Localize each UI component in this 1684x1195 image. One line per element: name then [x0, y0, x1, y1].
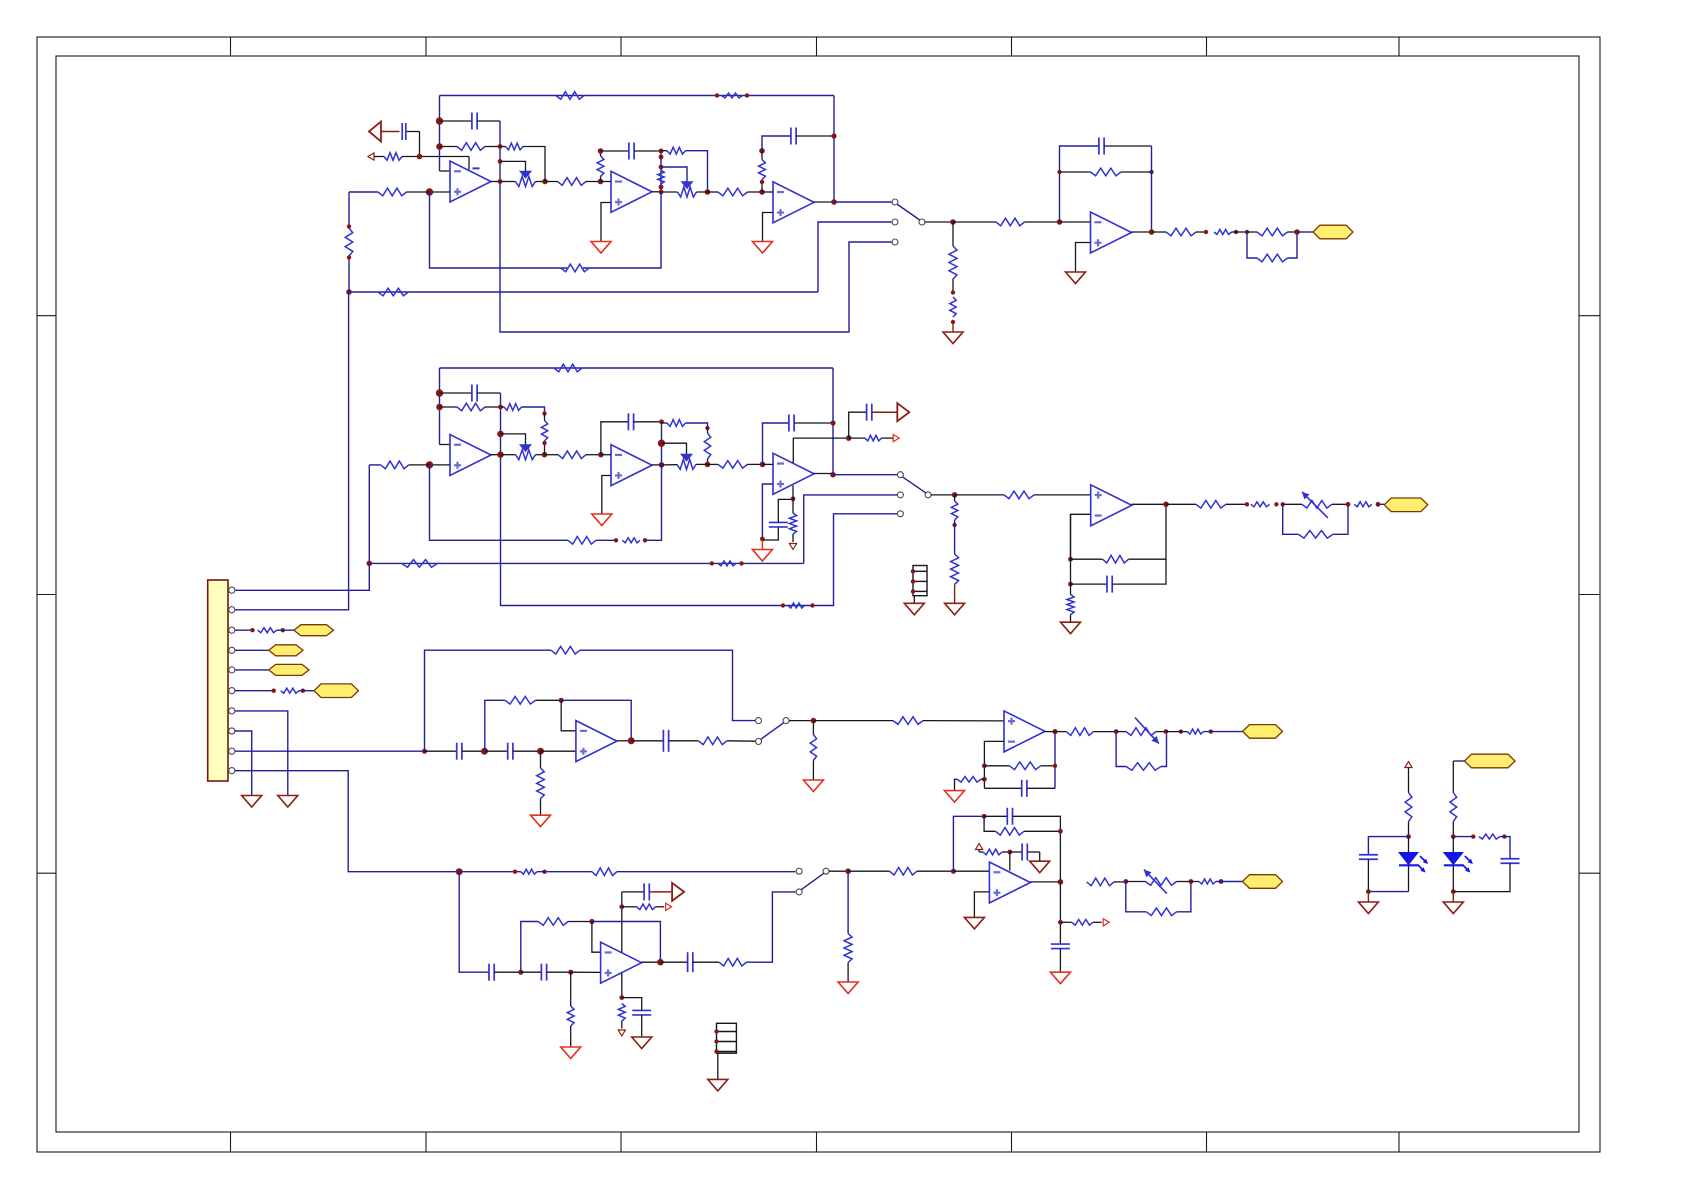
junction col500B a — [498, 405, 503, 410]
resistor R67 vertical — [618, 1004, 625, 1029]
wire U9 minus stub — [561, 700, 576, 731]
junction swB out — [952, 492, 958, 498]
junction outA c — [1245, 230, 1249, 234]
wire switch B mid input — [804, 495, 897, 564]
op-amp U8 — [1091, 485, 1132, 526]
junction U7 bot pin — [791, 496, 796, 501]
ground GND22 (LED1) — [1358, 892, 1378, 914]
junction U11 minus node — [589, 919, 594, 924]
wire U11 top pin — [621, 892, 623, 953]
resistor R42 to U8 — [955, 491, 1091, 499]
supply arrow small up LED — [1405, 762, 1412, 768]
junction fb left — [1057, 170, 1061, 174]
wire U8 out — [1132, 503, 1166, 505]
junction rowD mid — [518, 970, 523, 975]
junction U7 plus low — [760, 537, 765, 542]
op-amp U7 — [773, 453, 814, 494]
resistor R77 LED1 — [1405, 768, 1412, 837]
junction col661B a — [659, 419, 664, 424]
resistor R66 portD — [622, 904, 664, 910]
small resistor R79 LED2 — [1479, 834, 1500, 839]
wire U9 out — [617, 740, 631, 742]
ground GND18 (U12 bias) — [1030, 861, 1050, 873]
junction outC b — [1164, 729, 1169, 734]
wire top feedback A — [440, 96, 835, 203]
junction col661 d — [659, 185, 664, 190]
junction U9 minus node — [559, 698, 564, 703]
junction summing B top — [436, 389, 443, 396]
wire outA — [1232, 231, 1248, 233]
junction U12 in — [951, 869, 956, 874]
junction U12 outc — [1058, 920, 1063, 925]
wire U1 plus stub — [430, 191, 451, 193]
op-amp U1 — [450, 161, 491, 202]
capacitor C15 feedback U10 — [984, 780, 1055, 797]
trimmer TR1 — [1283, 492, 1348, 518]
wire pin2 riser — [235, 292, 349, 610]
resistor R51 rowC bias — [537, 751, 545, 815]
resistor R25 feedback U5 — [440, 403, 501, 411]
junction col661 e — [659, 190, 664, 195]
wire U7 out — [814, 473, 834, 475]
wire U10 minus stub — [984, 741, 1004, 788]
small resistor R37 y563 — [718, 561, 736, 566]
junction outB a — [1245, 502, 1249, 506]
junction LED1 top — [1406, 834, 1411, 839]
small resistor R76 outD — [1191, 879, 1216, 884]
op-amp U12 — [989, 862, 1030, 903]
wire U12 out — [1030, 881, 1060, 883]
junction U8 out — [1163, 502, 1169, 508]
port arrow small down — [789, 544, 796, 550]
wire U11 fb to out — [592, 922, 661, 963]
junction LED1 bot — [1366, 889, 1371, 894]
junction pot3 right — [542, 452, 548, 458]
wire to label A — [1297, 231, 1313, 233]
wire U7 bottom pin — [792, 486, 794, 499]
wire U1 output — [491, 181, 500, 183]
resistor R5 — [500, 143, 545, 181]
resistor R58 U10 gnd — [955, 777, 985, 791]
wire U5 plus stub — [430, 464, 451, 466]
wire column U5 out — [501, 393, 898, 606]
resistor R18 to U4 — [953, 218, 1060, 226]
junction portD node — [619, 904, 624, 909]
resistor R69 swD shunt — [844, 871, 852, 982]
small resistor R50 pin6 — [281, 688, 299, 693]
wire LED2 right down — [1500, 837, 1510, 859]
wire U6 out — [652, 464, 662, 466]
junction C8 right — [830, 420, 835, 425]
small resistor R61 outC — [1166, 729, 1204, 734]
ground GND11 (rowC bias) — [531, 815, 551, 827]
net label LED supply — [1465, 754, 1516, 768]
junction divider mid — [951, 290, 955, 294]
resistor R16 divider — [949, 222, 957, 293]
trimmer TR3 — [1126, 870, 1191, 894]
resistor R19 feedback U4 — [1060, 168, 1152, 176]
ground GND6 (U7 plus) — [752, 539, 772, 561]
wire rowD cap chain — [459, 872, 489, 973]
resistor R26 U5 plus input — [369, 461, 429, 469]
junction col762 top — [759, 148, 765, 154]
junction summing top — [436, 117, 443, 124]
wire U12 fb left — [953, 816, 984, 871]
junction outD c — [1219, 879, 1224, 884]
resistor R60 parallel outC — [1116, 732, 1166, 771]
junction x349 a — [347, 224, 351, 228]
resistor R73 to port — [1060, 920, 1101, 926]
junction outC d — [1209, 729, 1213, 733]
net label PIN5 — [269, 664, 309, 675]
capacitor C17 rowD — [521, 964, 571, 981]
junction U8 fb b — [1068, 582, 1073, 587]
resistor R31 over pot4 — [662, 420, 708, 428]
op-amp U10 — [1004, 711, 1045, 752]
resistor R24 top feedback B — [554, 364, 582, 372]
connector J1 pins — [228, 587, 235, 774]
capacitor C8 feedback U7 — [763, 415, 834, 465]
resistor R38 y540 — [568, 537, 596, 545]
wire U7 top pin — [793, 438, 848, 463]
junction divider low — [951, 320, 955, 324]
op-amp U3 — [773, 182, 814, 223]
junction swC out — [811, 718, 817, 724]
resistor R36 y563 — [402, 560, 438, 568]
capacitor C21 feedback U12 — [984, 808, 1060, 882]
resistor R72 bias U12 — [979, 849, 1010, 855]
junction y563 b — [739, 561, 743, 565]
junction U10 out — [1052, 729, 1057, 734]
resistor R30 — [545, 451, 601, 459]
resistor R63 rowD — [537, 868, 795, 876]
wire summing column — [440, 96, 451, 172]
wire switch A mid input — [818, 222, 892, 292]
capacitor C20 rowD out — [660, 952, 719, 972]
junction U3 out — [831, 199, 837, 205]
wire U8 minus stub — [1071, 514, 1091, 559]
capacitor C11 feedback U8 — [1071, 559, 1167, 592]
port arrow small down D — [618, 1030, 625, 1036]
ground GND2 (U3 plus) — [753, 242, 773, 254]
resistor R13 U1 plus — [349, 188, 430, 196]
wire column U6 out — [661, 422, 663, 465]
wire column U2 out — [660, 151, 662, 192]
port P1 (input, left arrow) — [369, 122, 400, 142]
ground GND15 (C19) — [632, 1037, 652, 1049]
wire switch D common — [829, 870, 848, 872]
wire U4 plus stub — [1076, 243, 1091, 273]
junction y563 a — [710, 561, 714, 565]
junction LED2 top — [1451, 834, 1456, 839]
port arrow small right D — [666, 903, 672, 910]
junction col500B c — [497, 451, 504, 458]
wire switch A common — [925, 221, 953, 223]
resistor R74 outD — [1087, 878, 1126, 886]
junction col500 a — [498, 144, 503, 149]
wire LED2 right branch — [1453, 836, 1473, 838]
junction dividerB mid — [952, 523, 956, 527]
junction y540 a — [614, 538, 618, 542]
wire switch C common — [789, 720, 813, 722]
resistor R45 outB — [1166, 501, 1247, 509]
ground GND13 (U10) — [945, 791, 965, 803]
ground GND16 (swD) — [838, 982, 858, 994]
capacitor C13 rowC — [485, 743, 541, 760]
resistor R34 vertical bias — [789, 499, 796, 542]
resistor R21 out small — [1214, 230, 1232, 235]
ground GND3 (divider) — [943, 322, 963, 344]
wire to U11 plus — [571, 971, 601, 973]
wire y540 feedback — [430, 465, 662, 540]
junction U8 fb a — [1068, 557, 1073, 562]
resistor R47 parallel outB — [1283, 504, 1348, 538]
wire y268 feedback — [430, 192, 662, 268]
ground GND20 (J2) — [904, 603, 924, 615]
switch S2 contacts — [897, 472, 931, 517]
junction pin6 a — [272, 689, 276, 693]
wire J2 gnd — [913, 596, 915, 604]
wire J3 gnd — [717, 1053, 719, 1079]
potentiometer POT3 — [501, 445, 545, 460]
junction U3 minus node — [759, 189, 765, 195]
junction col661B c — [659, 462, 665, 468]
wire pot2 tap — [661, 167, 687, 182]
wire U3 out — [814, 201, 835, 203]
resistor R4 feedback U1 — [440, 143, 501, 151]
junction rowD in — [456, 868, 463, 875]
wire U2 minus stub — [601, 181, 612, 183]
resistor R2 top feedback — [556, 92, 584, 100]
junction R9 out — [705, 189, 711, 195]
net label OUT-B — [1384, 498, 1428, 512]
switch S4 blade — [801, 873, 824, 889]
junction outB b — [1274, 502, 1278, 506]
resistor R32 vertical — [704, 428, 710, 464]
op-amp U11 — [601, 942, 642, 983]
resistor R3 top feedback small — [722, 93, 743, 98]
wire to U9 plus — [541, 750, 576, 752]
ground GND12 (swC) — [803, 780, 823, 792]
wire summing column B — [440, 368, 451, 445]
wire pin9 row C input — [235, 750, 425, 752]
wire U4 minus stub — [1060, 221, 1091, 223]
junction rowC mid — [481, 748, 488, 755]
capacitor C5 feedback U4 — [1099, 138, 1152, 155]
junction outA d — [1294, 229, 1300, 235]
resistor R33 — [708, 461, 763, 469]
resistor R52 rowC fb — [551, 646, 755, 720]
net label OUT-A — [1313, 225, 1353, 239]
resistor R15 y268 — [561, 264, 589, 272]
junction col661 c — [659, 165, 664, 170]
wire label to R78 — [1453, 761, 1464, 793]
junction y605 b — [810, 603, 814, 607]
wire top feedback B — [440, 368, 834, 475]
junction U7 out — [830, 472, 836, 478]
junction summing mid — [436, 143, 443, 150]
wire to label C — [1203, 731, 1242, 733]
resistor R57 feedback U10 — [984, 762, 1055, 770]
LED D2 — [1444, 837, 1473, 892]
op-amp U4 — [1091, 212, 1132, 253]
port arrow small right B — [893, 435, 899, 442]
port arrow small up U12 — [976, 844, 983, 850]
wire pin10 row D input — [235, 771, 459, 872]
junction R29 top — [542, 411, 546, 415]
net label OUT-D — [1243, 875, 1283, 889]
jumper J3 (3-pin) — [714, 1023, 736, 1053]
wire U8 fb column — [1070, 514, 1072, 584]
capacitor C6 feedback U5 — [440, 385, 501, 402]
junction outA b — [1234, 230, 1238, 234]
wire U7 out to switch — [833, 474, 897, 476]
capacitor C3 feedback U2 — [601, 143, 662, 160]
switch S1 blade — [898, 205, 920, 221]
resistor R1 input — [384, 153, 402, 161]
capacitor C10 port — [849, 404, 898, 438]
resistor R35 port — [849, 435, 893, 441]
wire U10 out — [1045, 731, 1055, 733]
potentiometer POT1 — [500, 171, 545, 186]
wire pin3 label — [277, 629, 294, 631]
wire U6 minus stub — [601, 454, 611, 456]
wire pot1 tap — [500, 161, 526, 171]
wire pot1B tap — [501, 434, 526, 445]
junction rowD a — [513, 870, 517, 874]
junction y540 b — [643, 538, 647, 542]
capacitor C22 bias U12 — [1010, 844, 1040, 862]
junction outB d — [1346, 502, 1351, 507]
wire U11 bottom pin — [621, 973, 623, 998]
ground GND9 (pin7) — [278, 796, 298, 808]
small resistor R49 pin3 — [258, 628, 277, 633]
wire LED1 left branch — [1368, 837, 1408, 855]
op-amp U6 — [611, 445, 652, 486]
resistor R20 out — [1152, 228, 1207, 236]
capacitor C25 LED2 — [1453, 859, 1519, 892]
resistor R17 divider small — [950, 297, 956, 317]
junction pin1 riser — [367, 561, 373, 567]
potentiometer POT4 — [662, 454, 708, 469]
wire U10 out column — [1054, 732, 1056, 789]
wire U7 minus stub — [763, 463, 774, 465]
wire LED1 bottom — [1368, 891, 1408, 893]
wire U9 fb to out — [561, 700, 631, 741]
wire U11 minus stub — [592, 922, 601, 953]
resistor R54 rowC out — [698, 737, 755, 745]
junction U9 out — [628, 737, 635, 744]
junction col500B b — [497, 431, 504, 438]
wire pin6 label — [299, 690, 314, 692]
resistor R8 vertical col661 — [658, 170, 664, 184]
potentiometer POT2 — [661, 182, 708, 197]
resistor R23 parallel bottom — [1247, 232, 1297, 262]
junction U11 out — [657, 959, 664, 966]
wire pot4 tap — [662, 443, 687, 454]
capacitor C23 out — [1051, 944, 1070, 972]
port P4 (right arrow) — [672, 883, 684, 901]
net label PIN3 — [294, 625, 334, 636]
junction U12 out — [1058, 879, 1064, 885]
switch S4 contacts — [796, 868, 829, 895]
junction U6 minus node — [598, 452, 604, 458]
ground GND8 (U8 bias) — [1061, 622, 1081, 634]
junction col762 mid — [760, 180, 764, 184]
resistor R65 U11 fb — [521, 918, 592, 973]
resistor R75 parallel outD — [1126, 882, 1191, 916]
junction portB node — [846, 435, 852, 441]
resistor R71 feedback U12 — [984, 816, 1060, 835]
junction x349 b — [347, 255, 351, 259]
wire to label B — [1378, 503, 1384, 505]
wire U4 fb column right — [1151, 146, 1153, 232]
wire pin3 — [235, 629, 253, 631]
junction U12 fb b — [1058, 829, 1063, 834]
capacitor C1 input — [402, 123, 419, 157]
junction LED2 bot — [1451, 889, 1456, 894]
junction pin9 node — [422, 749, 427, 754]
capacitor C19 bias — [622, 998, 651, 1037]
junction pot1 right — [542, 179, 548, 185]
junction outC c — [1179, 729, 1183, 733]
ground GND21 (J3) — [708, 1079, 728, 1091]
junction pin3 a — [250, 628, 254, 632]
junction R32 low — [705, 462, 711, 468]
wire U12 minus stub — [953, 870, 989, 872]
junction U10 fb b — [982, 777, 987, 782]
switch S3 blade — [761, 723, 784, 740]
wire to label D — [1216, 881, 1243, 883]
junction U1 plus — [426, 188, 433, 195]
resistor R12 on y292 — [378, 288, 409, 296]
switch S3 contacts — [756, 718, 790, 745]
resistor R56 to U10 — [813, 717, 1004, 725]
junction y292 left — [346, 289, 352, 295]
junction LED2 rb — [1502, 834, 1506, 838]
capacitor C14 rowC out — [631, 730, 698, 752]
resistor R55 swC shunt — [810, 721, 816, 780]
capacitor C16 rowD — [489, 964, 521, 981]
wire U2 out — [652, 191, 662, 193]
wire y292 line — [349, 291, 818, 293]
junction U12 fb a — [982, 814, 987, 819]
junction outB e — [1376, 502, 1381, 507]
ground GND5 (U6 plus) — [592, 514, 612, 526]
junction summing B mid — [436, 404, 443, 411]
junction C4 right — [831, 133, 836, 138]
junction rowC plus node — [537, 748, 544, 755]
wire U2 plus stub — [601, 203, 611, 242]
resistor R11 vertical — [759, 151, 766, 192]
wire column U1 out — [500, 121, 892, 332]
wire U11 out — [642, 961, 661, 963]
wire switch B common — [931, 494, 955, 496]
port arrow small right U12 — [1103, 919, 1109, 926]
resistor R29 vertical — [541, 414, 547, 455]
junction fb right — [1149, 170, 1153, 174]
junction input node — [417, 154, 423, 160]
LED D1 — [1399, 837, 1428, 892]
capacitor C24 LED1 — [1359, 855, 1378, 892]
resistor R28 over pot3 — [501, 404, 545, 414]
wire U3 out to switch — [834, 201, 892, 203]
junction U10 outc — [1053, 764, 1057, 768]
wire U5 out — [491, 454, 501, 456]
junction U2 minus node — [598, 179, 604, 185]
resistor R44 bias U8 — [1067, 584, 1074, 622]
ground GND14 (rowD bias) — [561, 1047, 581, 1059]
